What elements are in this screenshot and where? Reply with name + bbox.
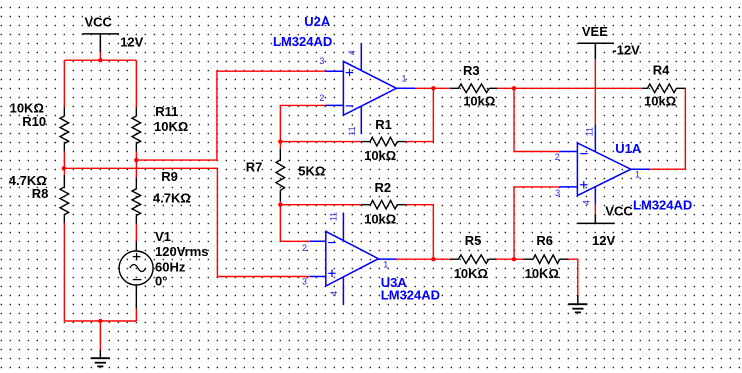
svg-text:VEE: VEE bbox=[582, 24, 608, 39]
svg-text:R3: R3 bbox=[463, 63, 480, 78]
wire R11 bottom to node bbox=[135, 151, 137, 160]
svg-text:LM324AD: LM324AD bbox=[273, 34, 332, 49]
svg-text:10kΩ: 10kΩ bbox=[364, 211, 396, 226]
wire U3A output bbox=[396, 258, 450, 260]
label U2A part bbox=[273, 34, 332, 49]
wire node down to U1A minus bbox=[514, 88, 560, 151]
svg-text:R4: R4 bbox=[653, 62, 670, 77]
wire R2 right to U3A output node bbox=[406, 205, 433, 260]
svg-text:4: 4 bbox=[347, 50, 357, 55]
svg-text:4.7KΩ: 4.7KΩ bbox=[153, 190, 191, 205]
svg-text:12V: 12V bbox=[592, 233, 615, 248]
label R8 value bbox=[9, 173, 47, 188]
wire U3A minus input bbox=[280, 205, 309, 242]
resistor R5 bbox=[450, 255, 496, 264]
label U2A name bbox=[304, 14, 331, 29]
svg-text:10KΩ: 10KΩ bbox=[154, 119, 188, 134]
svg-text:0°: 0° bbox=[155, 274, 167, 289]
svg-text:60Hz: 60Hz bbox=[155, 259, 186, 274]
svg-text:R2: R2 bbox=[375, 180, 392, 195]
resistor R10 bbox=[60, 107, 69, 151]
svg-text:R10: R10 bbox=[22, 114, 46, 129]
wire R10 top bbox=[63, 60, 65, 107]
label R2 name bbox=[375, 180, 392, 195]
pin 1 label U1A bbox=[635, 170, 640, 180]
svg-text:2: 2 bbox=[319, 93, 324, 103]
wire node to R9 bbox=[135, 160, 137, 178]
power VCC symbol top-left bbox=[82, 14, 118, 52]
resistor R6 bbox=[524, 255, 568, 264]
svg-text:LM324AD: LM324AD bbox=[633, 197, 692, 212]
svg-text:10kΩ: 10kΩ bbox=[463, 94, 495, 109]
wire R10 bottom to node bbox=[63, 151, 65, 168]
svg-text:2: 2 bbox=[555, 152, 560, 162]
junction node R11/R9 bbox=[134, 158, 138, 162]
svg-text:11: 11 bbox=[347, 126, 357, 135]
pin 11 label U1A bbox=[584, 127, 594, 136]
wire R8 bottom to bottom rail bbox=[63, 223, 65, 321]
label R4 name bbox=[653, 62, 670, 77]
svg-text:4: 4 bbox=[581, 200, 591, 205]
pin 2 label U3A bbox=[302, 243, 307, 253]
junction R7/R2 node bbox=[278, 203, 282, 207]
pin 4 label U3A bbox=[329, 291, 339, 296]
label V1 name bbox=[155, 229, 171, 244]
svg-text:12V: 12V bbox=[120, 35, 143, 50]
wire U1A pin4 to VCC bbox=[594, 204, 596, 214]
pin 2 label U2A bbox=[319, 93, 324, 103]
power VCC symbol at U1A pin4 bbox=[577, 204, 633, 224]
resistor R3 bbox=[450, 84, 497, 93]
svg-text:1: 1 bbox=[383, 260, 388, 270]
wire R2 left bbox=[280, 204, 361, 206]
pin 11 label U3A bbox=[329, 212, 339, 221]
svg-text:R1: R1 bbox=[375, 117, 392, 132]
svg-text:R5: R5 bbox=[465, 233, 482, 248]
svg-text:U2A: U2A bbox=[304, 14, 331, 29]
svg-text:-12V: -12V bbox=[612, 43, 640, 58]
pin 2 label U1A bbox=[555, 152, 560, 162]
op-amp U3A bbox=[310, 213, 397, 305]
resistor R11 bbox=[132, 107, 141, 151]
wire R4 right to U1A output bbox=[649, 88, 685, 169]
svg-text:R9: R9 bbox=[161, 169, 178, 184]
label V1 phase bbox=[155, 274, 167, 289]
pin 1 label U2A bbox=[402, 74, 407, 84]
wire VCC stem red bbox=[99, 52, 101, 60]
svg-text:3: 3 bbox=[302, 276, 307, 286]
svg-text:10kΩ: 10kΩ bbox=[644, 94, 676, 109]
pin 4 label U2A bbox=[347, 50, 357, 55]
svg-text:VCC: VCC bbox=[85, 14, 113, 29]
wire R1 left bbox=[280, 141, 361, 143]
wire R4 left bbox=[514, 87, 642, 89]
svg-text:R7: R7 bbox=[246, 160, 263, 175]
wire node R10 to U3A plus input bbox=[64, 168, 310, 276]
svg-text:R6: R6 bbox=[536, 233, 553, 248]
junction R1/R7 node bbox=[278, 139, 282, 143]
label R10 value bbox=[10, 100, 44, 115]
wire feedback down bbox=[432, 88, 434, 141]
pin 3 label U3A bbox=[302, 276, 307, 286]
op-amp U1A bbox=[560, 125, 650, 204]
source V1 bbox=[119, 241, 153, 309]
wire R3 right bbox=[497, 87, 514, 89]
svg-text:2: 2 bbox=[302, 243, 307, 253]
svg-text:V1: V1 bbox=[155, 229, 171, 244]
label U1A part bbox=[633, 197, 692, 212]
label V1 freq bbox=[155, 259, 186, 274]
label -12V (VEE) bbox=[612, 43, 640, 58]
power VEE symbol top-right bbox=[578, 24, 614, 59]
ground symbol bottom-left bbox=[91, 350, 110, 366]
svg-text:3: 3 bbox=[555, 188, 560, 198]
wire R6 right to ground bbox=[568, 259, 578, 295]
junction bottom rail / ground bbox=[98, 319, 102, 323]
label R9 value bbox=[153, 190, 191, 205]
wire R9 to V1 bbox=[135, 224, 137, 242]
pin 11 label U2A bbox=[347, 126, 357, 135]
label R6 name bbox=[536, 233, 553, 248]
label R5 value bbox=[454, 266, 488, 281]
svg-text:R8: R8 bbox=[32, 186, 49, 201]
wire VEE to U1A pin11 bbox=[594, 59, 596, 125]
svg-text:11: 11 bbox=[329, 212, 339, 221]
wire U2A output bbox=[415, 87, 433, 89]
wire R5 right bbox=[496, 258, 524, 260]
junction U3A output bbox=[431, 257, 435, 261]
label R6 value bbox=[525, 266, 559, 281]
label R3 name bbox=[463, 63, 480, 78]
svg-text:3: 3 bbox=[319, 56, 324, 66]
wire ground stem red bbox=[99, 321, 101, 350]
label R5 name bbox=[465, 233, 482, 248]
svg-text:VCC: VCC bbox=[605, 204, 633, 219]
pin 1 label U3A bbox=[383, 260, 388, 270]
svg-text:R11: R11 bbox=[155, 104, 178, 119]
svg-text:1: 1 bbox=[402, 74, 407, 84]
wire R3 left bbox=[433, 87, 450, 89]
op-amp U2A bbox=[325, 43, 415, 134]
svg-text:11: 11 bbox=[584, 127, 594, 136]
label R7 name bbox=[246, 160, 263, 175]
label R10 name bbox=[22, 114, 46, 129]
svg-text:10kΩ: 10kΩ bbox=[364, 148, 396, 163]
resistor R1 bbox=[361, 137, 406, 146]
svg-text:10KΩ: 10KΩ bbox=[454, 266, 488, 281]
label R8 name bbox=[32, 186, 49, 201]
label R11 name bbox=[155, 104, 178, 119]
resistor R9 bbox=[132, 178, 141, 224]
wire R7 top lead bbox=[279, 142, 281, 149]
junction top rail / VCC bbox=[98, 58, 102, 62]
resistor R7 bbox=[276, 149, 285, 202]
svg-text:LM324AD: LM324AD bbox=[381, 288, 440, 303]
pin 3 label U2A bbox=[319, 56, 324, 66]
label V1 voltage bbox=[155, 244, 209, 259]
wire node R11 to U2A plus input bbox=[136, 71, 325, 160]
label R9 name bbox=[161, 169, 178, 184]
wire V1 bottom bbox=[135, 309, 137, 321]
label 12V (VCC top-left) bbox=[120, 35, 143, 50]
label R4 value bbox=[644, 94, 676, 109]
pin 3 label U1A bbox=[555, 188, 560, 198]
junction node R10/R8 bbox=[62, 166, 66, 170]
label R11 value bbox=[154, 119, 188, 134]
label 12V (VCC at U1A) bbox=[592, 233, 615, 248]
wire top rail bbox=[64, 59, 136, 61]
wire R11 top bbox=[135, 60, 137, 107]
svg-text:1: 1 bbox=[635, 170, 640, 180]
resistor R8 bbox=[60, 168, 69, 223]
label U3A part bbox=[381, 288, 440, 303]
svg-text:U1A: U1A bbox=[615, 141, 642, 156]
svg-text:10KΩ: 10KΩ bbox=[525, 266, 559, 281]
label U3A name bbox=[381, 275, 408, 290]
label U1A name bbox=[615, 141, 642, 156]
label R2 value bbox=[364, 211, 396, 226]
pin 4 label U1A bbox=[581, 200, 591, 205]
resistor R2 bbox=[361, 200, 406, 209]
ground symbol right bbox=[568, 295, 587, 312]
wire U2A minus input bbox=[280, 105, 325, 141]
resistor R4 bbox=[642, 84, 685, 93]
label R1 value bbox=[364, 148, 396, 163]
wire R7 bottom lead bbox=[279, 201, 281, 204]
wire R1 right bbox=[406, 141, 433, 143]
junction R3/R4 node bbox=[512, 86, 516, 90]
wire bottom rail bbox=[64, 320, 136, 322]
junction U2A output bbox=[431, 86, 435, 90]
label R3 value bbox=[463, 94, 495, 109]
wire node up to U1A plus bbox=[514, 187, 560, 259]
svg-text:120Vrms: 120Vrms bbox=[155, 244, 209, 259]
svg-text:4: 4 bbox=[329, 291, 339, 296]
junction R5/R6 node bbox=[512, 257, 516, 261]
label R1 name bbox=[375, 117, 392, 132]
svg-text:5KΩ: 5KΩ bbox=[298, 164, 325, 179]
label R7 value bbox=[298, 164, 325, 179]
